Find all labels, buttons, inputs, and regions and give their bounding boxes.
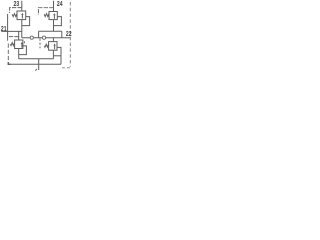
svg-text:24: 24 <box>57 1 63 8</box>
svg-text:22: 22 <box>66 31 72 38</box>
svg-text:23: 23 <box>14 1 20 8</box>
svg-text:21: 21 <box>1 26 7 33</box>
